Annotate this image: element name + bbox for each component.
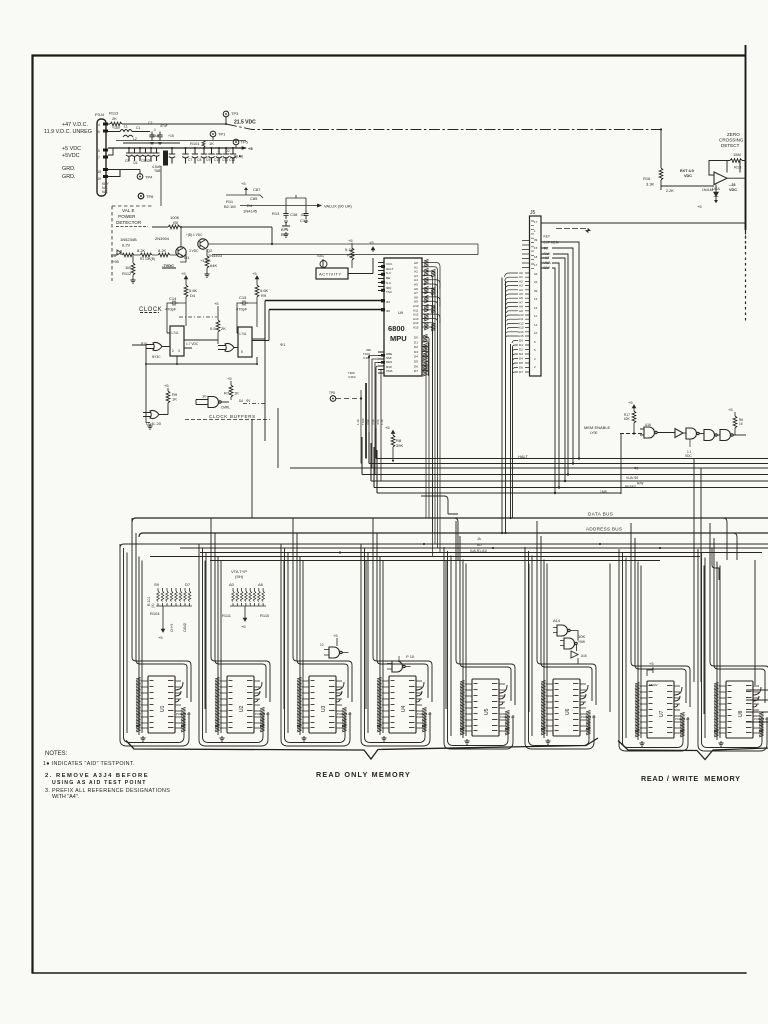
svg-text:3.9K: 3.9K: [366, 419, 370, 425]
svg-text:ADDRESS BUS: ADDRESS BUS: [586, 527, 622, 532]
svg-text:D7: D7: [519, 370, 523, 374]
svg-text:R101: R101: [190, 141, 200, 146]
svg-text:C15: C15: [239, 295, 247, 300]
+5 hook above U7: [647, 661, 655, 676]
svg-text:C9: C9: [206, 158, 210, 162]
svg-text:CH+5: CH+5: [170, 624, 174, 632]
svg-text:U16: U16: [645, 423, 651, 427]
wire FF interconnect: [132, 227, 265, 416]
svg-text:+5: +5: [697, 204, 702, 209]
svg-text:15M: 15M: [733, 152, 741, 157]
upper sense wire: [116, 140, 246, 142]
svg-text:VAL E: VAL E: [122, 208, 135, 213]
wire bus H4: [362, 437, 768, 475]
gate U16D: [720, 430, 746, 441]
resistor R10 5.1K: [345, 238, 355, 268]
connector P3J4: [95, 112, 110, 196]
svg-text:.01: .01: [300, 212, 306, 217]
svg-text:U1: U1: [160, 705, 166, 712]
label CLOCK: [139, 307, 162, 313]
J5 D-fan curves: [512, 341, 518, 374]
wire DATA BUS: [132, 512, 768, 523]
svg-text:+5: +5: [628, 400, 633, 405]
svg-text:1.1K: 1.1K: [356, 419, 360, 425]
svg-text:D0: D0: [519, 339, 523, 343]
svg-text:A8: A8: [258, 582, 264, 587]
wire 21.5VDC dash line to zero crossing: [226, 124, 661, 130]
svg-text:3.3K: 3.3K: [646, 182, 655, 187]
svg-text:1K: 1K: [234, 391, 239, 396]
svg-text:15: 15: [739, 422, 743, 426]
svg-text:+5: +5: [214, 301, 219, 306]
bus net labels: [600, 467, 644, 495]
wire bus H1: [376, 428, 768, 459]
svg-text:+15V: +15V: [112, 126, 121, 130]
svg-text:ACTIVITY: ACTIVITY: [319, 272, 342, 277]
svg-text:2K: 2K: [221, 326, 226, 331]
resistor R4 5.6K: [181, 271, 198, 326]
svg-text:CLOCK BUFFERS: CLOCK BUFFERS: [209, 414, 256, 419]
svg-text:+: +: [161, 147, 163, 151]
svg-text:15: 15: [534, 246, 538, 250]
J5 left data pins D0-D7: [519, 339, 523, 375]
svg-text:U4: U4: [401, 705, 407, 712]
svg-text:C11: C11: [222, 158, 228, 162]
svg-text:P3J4: P3J4: [95, 112, 105, 117]
riser net labels: [348, 371, 384, 425]
svg-text:ZERO: ZERO: [727, 132, 740, 137]
flip-flop U14B: [238, 327, 252, 357]
svg-text:17: 17: [534, 263, 538, 267]
svg-text:DETECT: DETECT: [721, 143, 740, 148]
svg-text:10: 10: [320, 643, 324, 647]
svg-text:D6: D6: [519, 366, 523, 370]
svg-text:1N4148: 1N4148: [702, 188, 713, 192]
svg-text:C7: C7: [188, 158, 192, 162]
svg-text:U9: U9: [398, 310, 404, 315]
wire clock verticals to bus: [252, 341, 278, 518]
gate U16B: [685, 428, 705, 458]
svg-text:+95: +95: [112, 259, 120, 264]
gate U16C: [704, 430, 721, 441]
svg-text:22: 22: [534, 280, 538, 284]
svg-text:TP5: TP5: [241, 140, 249, 145]
node VALUX: [240, 204, 352, 209]
J5 upper left stubs: [522, 241, 530, 268]
resistor R7 1K: [224, 376, 239, 400]
resistor R17: [624, 400, 636, 435]
resistor R13 15M: [727, 152, 746, 173]
svg-text:C14: C14: [169, 296, 177, 301]
MPU data wires down: [426, 337, 429, 518]
svg-text:3: 3: [178, 349, 180, 353]
svg-text:D1: D1: [414, 340, 418, 344]
svg-text:MEM ENABLE: MEM ENABLE: [584, 425, 611, 430]
svg-text:+5: +5: [158, 635, 163, 640]
svg-text:CAND: CAND: [183, 622, 187, 632]
resistor R9 5.6K: [252, 271, 269, 327]
svg-text:4: 4: [98, 123, 100, 127]
svg-text:6.2V: 6.2V: [122, 243, 131, 248]
svg-text:S51: S51: [317, 253, 325, 258]
svg-text:A0: A0: [229, 582, 235, 587]
svg-text:+5: +5: [333, 633, 338, 638]
svg-text:+5: +5: [649, 661, 654, 666]
svg-text:1M: 1M: [125, 265, 131, 270]
svg-text:VDC: VDC: [729, 188, 737, 192]
svg-text:17: 17: [534, 220, 538, 224]
svg-text:R112: R112: [122, 271, 132, 276]
svg-text:(B): (B): [173, 220, 179, 225]
J5 A-fan curves: [505, 273, 519, 337]
svg-text:Φ1: Φ1: [386, 300, 390, 304]
svg-text:6800V: 6800V: [649, 683, 658, 687]
test point TP3: [223, 111, 256, 126]
svg-text:5: 5: [241, 350, 243, 354]
svg-text:C1: C1: [136, 126, 140, 130]
test point TP4: [137, 170, 153, 180]
resistor R8 39K: [385, 425, 403, 462]
svg-text:U2: U2: [239, 705, 245, 712]
svg-text:READ / WRITE MEMORY: READ / WRITE MEMORY: [641, 774, 741, 783]
svg-text:D4: D4: [414, 355, 418, 359]
MPU lower-left wires to bus risers: [369, 356, 384, 482]
svg-text:+5: +5: [181, 271, 186, 276]
svg-text:CMRL: CMRL: [221, 406, 230, 410]
svg-text:RESET: RESET: [625, 485, 636, 489]
svg-text:(SH): (SH): [235, 574, 244, 579]
capacitor C13 .01: [300, 198, 309, 223]
svg-text:62K: 62K: [624, 417, 631, 421]
resistor pack R101-R104 above U1: [147, 582, 192, 640]
svg-text:18: 18: [98, 170, 102, 174]
label MEM ENABLE: [584, 425, 644, 435]
wire arrow stub: [556, 228, 588, 230]
wire data feed to col5: [454, 518, 458, 560]
svg-text:3.3K: 3.3K: [371, 419, 375, 425]
bold phi2 riser: [365, 383, 367, 459]
svg-text:GRD.: GRD.: [62, 166, 75, 172]
svg-text:8.2K: 8.2K: [158, 248, 167, 253]
svg-text:+5: +5: [728, 407, 733, 412]
zener diode 1N5234B: [117, 237, 137, 255]
svg-text:2: 2: [172, 349, 174, 353]
svg-text:D4: D4: [239, 399, 243, 403]
label EXT 4.9 VDC: [666, 169, 694, 193]
wire GRD pins: [108, 170, 140, 177]
resistor R113: [109, 111, 122, 126]
svg-text:B2.1M: B2.1M: [224, 204, 236, 209]
svg-text:P 10: P 10: [406, 654, 415, 659]
svg-text:WITH "A4".: WITH "A4".: [52, 794, 79, 800]
wire detector output y254: [212, 244, 478, 255]
feed verticals to U7 column: [694, 459, 701, 683]
wire mem-enable drop: [620, 434, 622, 495]
svg-text:D2: D2: [414, 345, 418, 349]
wire HLT: [541, 258, 565, 481]
svg-text:R13: R13: [272, 211, 280, 216]
svg-text:D3: D3: [414, 350, 418, 354]
svg-text:+5: +5: [385, 425, 390, 430]
svg-text:NOTES:: NOTES:: [45, 751, 68, 757]
svg-text:R9: R9: [261, 293, 267, 298]
svg-text:U8: U8: [738, 710, 744, 717]
test point TP1: [210, 131, 226, 140]
label VAL E POWER DETECTOR: [116, 208, 148, 227]
svg-text:VDC: VDC: [685, 454, 692, 458]
svg-text:1N4145: 1N4145: [243, 209, 258, 214]
svg-text:.1: .1: [153, 128, 156, 132]
wire B/W: [541, 268, 555, 493]
wire addr line A6: [210, 560, 660, 562]
svg-text:1K: 1K: [209, 141, 214, 146]
RAM U7 column: [619, 523, 704, 751]
svg-text:Φ1: Φ1: [280, 342, 286, 347]
svg-text:11.9 V.D.C. UNREG: 11.9 V.D.C. UNREG: [44, 129, 92, 135]
svg-text:A15: A15: [581, 654, 587, 658]
svg-text:6: 6: [98, 130, 100, 134]
resistor 64K: [200, 249, 217, 277]
svg-text:A15: A15: [518, 334, 524, 338]
svg-text:09: 09: [534, 238, 538, 242]
test point TP6b: [138, 193, 144, 199]
svg-text:.1: .1: [217, 149, 220, 153]
wire from cap rail down: [226, 195, 306, 198]
gate U17B above U3: [320, 633, 349, 658]
indicator S51: [317, 253, 327, 268]
wire addr line A3: [180, 547, 768, 549]
diode D4 1N4148 cluster: [224, 181, 263, 214]
svg-text:470pF: 470pF: [236, 307, 248, 312]
svg-text:1.7 VDC: 1.7 VDC: [186, 342, 199, 346]
connector J5 body: [530, 210, 542, 376]
net labels JA AD: [470, 537, 487, 553]
svg-text:39K: 39K: [396, 443, 403, 448]
gate U15 nand: [196, 394, 265, 410]
svg-text:N.C: N.C: [386, 281, 392, 285]
MPU lower-left pin labels: [363, 348, 371, 360]
svg-text:MPU: MPU: [390, 334, 407, 343]
capacitor C3: [149, 132, 162, 145]
wire bus H3: [290, 467, 768, 469]
svg-text:C85: C85: [250, 196, 258, 201]
svg-text:10: 10: [534, 331, 538, 335]
wire to op-amp: [661, 186, 714, 190]
dashed right border bits: [745, 228, 747, 250]
svg-text:Φ2: Φ2: [634, 467, 639, 471]
svg-text:Φ2: Φ2: [544, 247, 549, 251]
svg-text:TP8: TP8: [329, 391, 335, 395]
svg-text:VUA·Φ2: VUA·Φ2: [626, 476, 639, 480]
svg-text:+5: +5: [164, 383, 169, 388]
label zero crossing detector: [719, 132, 744, 148]
svg-text:RE: RE: [386, 276, 390, 280]
svg-text:B12: B12: [281, 232, 289, 237]
svg-text:R1 10K(B): R1 10K(B): [140, 257, 155, 261]
svg-text:D1: D1: [519, 343, 523, 347]
svg-text:18: 18: [534, 255, 538, 259]
svg-text:12: 12: [534, 323, 538, 327]
wire J5 line to detector: [541, 222, 746, 224]
svg-text:C38: C38: [290, 212, 298, 217]
wire VMA: [541, 263, 559, 488]
svg-text:10: 10: [202, 394, 207, 399]
svg-text:U5: U5: [484, 708, 490, 715]
svg-text:(X): (X): [151, 603, 155, 608]
MPU data pins D0-D7: [422, 337, 427, 371]
resistor R112 1M: [122, 255, 136, 283]
svg-text:11: 11: [534, 314, 537, 318]
svg-text:J5: J5: [530, 210, 536, 216]
svg-text:16: 16: [534, 306, 538, 310]
svg-text:LY0E: LY0E: [590, 431, 598, 435]
svg-text:D5: D5: [414, 360, 418, 364]
wire addr line A2: [120, 544, 768, 548]
wire EXT MEM: [541, 242, 579, 459]
svg-text:TP6: TP6: [146, 194, 154, 199]
svg-text:+5: +5: [241, 181, 246, 186]
transistor Q2: [186, 233, 223, 258]
svg-text:7: 7: [98, 156, 100, 160]
wire phi2 bold to MPU: [269, 309, 384, 311]
svg-text:TAB: TAB: [154, 169, 161, 173]
capacitor C14 470pF: [165, 296, 186, 333]
svg-text:+15: +15: [168, 134, 174, 138]
svg-text:5: 5: [98, 149, 100, 153]
svg-text:GRD.: GRD.: [62, 174, 75, 180]
wire addr line A5: [150, 556, 700, 558]
svg-text:6800: 6800: [388, 324, 405, 333]
svg-text:EXT MEM: EXT MEM: [544, 241, 559, 245]
label -7VDC: [162, 252, 186, 268]
wire ADDRESS BUS: [139, 527, 768, 538]
MPU left pins: [378, 263, 384, 374]
node +47 V.D.C. label: [44, 122, 92, 180]
gate G1: [141, 342, 170, 359]
svg-text:USING AS AID TEST POINT: USING AS AID TEST POINT: [52, 780, 147, 786]
ROM U6 column: [525, 521, 610, 749]
svg-text:U3: U3: [321, 705, 327, 712]
gate U16A: [640, 423, 675, 438]
svg-text:+47 V.D.C.: +47 V.D.C.: [62, 122, 88, 128]
svg-text:TP4: TP4: [145, 175, 153, 180]
svg-text:C87: C87: [253, 187, 261, 192]
svg-text:D2: D2: [519, 348, 523, 352]
wire top link: [208, 227, 272, 244]
wire corner feeds right columns: [421, 496, 737, 580]
svg-text:U14L 20: U14L 20: [146, 421, 162, 426]
svg-text:B(L-B): B(L-B): [234, 155, 243, 159]
wire +47V rail: [108, 123, 226, 125]
rail junction dots: [128, 147, 234, 149]
wire R/W: [541, 254, 568, 475]
svg-text:R113: R113: [109, 111, 119, 116]
MPU address wires curving down: [428, 263, 440, 557]
resistor R16 2.2K: [643, 128, 663, 186]
test point TP8: [329, 390, 362, 464]
J5 right pin nets: [544, 235, 559, 271]
svg-text:2. REMOVE A3J4 BEFORE: 2. REMOVE A3J4 BEFORE: [45, 773, 149, 779]
svg-text:-7VDC: -7VDC: [162, 263, 174, 268]
brace READ/WRITE MEMORY: [618, 741, 768, 760]
op-amp U9 body: [384, 258, 422, 376]
svg-text:C5: C5: [125, 159, 129, 163]
brace READ ONLY MEMORY: [126, 738, 598, 759]
svg-text:D3: D3: [519, 352, 523, 356]
svg-text:TP3: TP3: [231, 111, 239, 116]
capacitor C4 electrolytic: [161, 147, 169, 166]
svg-text:R7: R7: [224, 391, 230, 396]
svg-text:47uF: 47uF: [160, 124, 168, 128]
resistor K3 network: [111, 248, 178, 264]
svg-text:T109: T109: [361, 418, 365, 425]
gate G2: [218, 343, 238, 351]
svg-text:-.23: -.23: [729, 183, 736, 187]
svg-text:+5: +5: [241, 624, 246, 629]
svg-text:3.3K2: 3.3K2: [348, 375, 356, 379]
ROM U5 column: [444, 521, 529, 749]
svg-text:DETECTOR: DETECTOR: [116, 220, 142, 225]
svg-text:VCC: VCC: [386, 262, 393, 266]
diode 1N4148: [697, 185, 719, 210]
right edge continuation wires: [746, 560, 768, 722]
svg-text:C5B2B: C5B2B: [141, 159, 152, 163]
svg-text:C6: C6: [133, 161, 137, 165]
gates above U6: [553, 618, 587, 664]
svg-text:K3: K3: [111, 253, 117, 258]
svg-text:TP1: TP1: [218, 132, 226, 137]
svg-text:AD: AD: [477, 543, 482, 547]
svg-text:TSC: TSC: [386, 290, 393, 294]
node +5 arrow: [234, 146, 253, 159]
svg-text:R/W: R/W: [637, 482, 644, 486]
wire bus H2: [369, 432, 768, 464]
svg-text:D7: D7: [185, 582, 191, 587]
svg-text:N.C: N.C: [386, 271, 392, 275]
svg-text:15: 15: [534, 297, 538, 301]
test point TP5: [233, 139, 248, 148]
svg-text:R111: R111: [222, 613, 232, 618]
svg-text:10K: 10K: [578, 634, 585, 639]
svg-text:A15: A15: [413, 326, 419, 330]
svg-text:Y5W: Y5W: [578, 640, 585, 644]
J5 D bundle verticals: [511, 344, 513, 518]
wire bus H6: [374, 447, 768, 488]
svg-text:D4: D4: [519, 357, 523, 361]
svg-text:+5: +5: [227, 376, 232, 381]
svg-text:Φ2: Φ2: [386, 309, 390, 313]
svg-text:19: 19: [98, 177, 102, 181]
svg-text:L74L: L74L: [172, 331, 179, 335]
flip-flop U14A: [170, 326, 184, 356]
svg-text:1.1K: 1.1K: [380, 419, 384, 425]
svg-text:1● INDICATES "AID" TESTPOINT.: 1● INDICATES "AID" TESTPOINT.: [43, 761, 135, 767]
svg-text:.02: .02: [225, 149, 230, 153]
svg-text:R16: R16: [643, 176, 651, 181]
svg-text:C10: C10: [214, 158, 220, 162]
capacitor C38 + battery BT1: [272, 198, 298, 237]
svg-text:3 VDC: 3 VDC: [189, 249, 199, 253]
svg-text:+5: +5: [252, 271, 257, 276]
svg-text:VALUX (90 UA): VALUX (90 UA): [324, 204, 352, 209]
resistor 100K: [152, 215, 272, 229]
svg-text:+5: +5: [348, 238, 353, 243]
svg-text:34: 34: [534, 272, 538, 276]
wire cap bank to detector: [160, 166, 162, 206]
svg-text:1MB: 1MB: [600, 490, 608, 494]
svg-text:2K: 2K: [112, 116, 117, 121]
svg-text:21.5 VDC: 21.5 VDC: [234, 120, 256, 126]
